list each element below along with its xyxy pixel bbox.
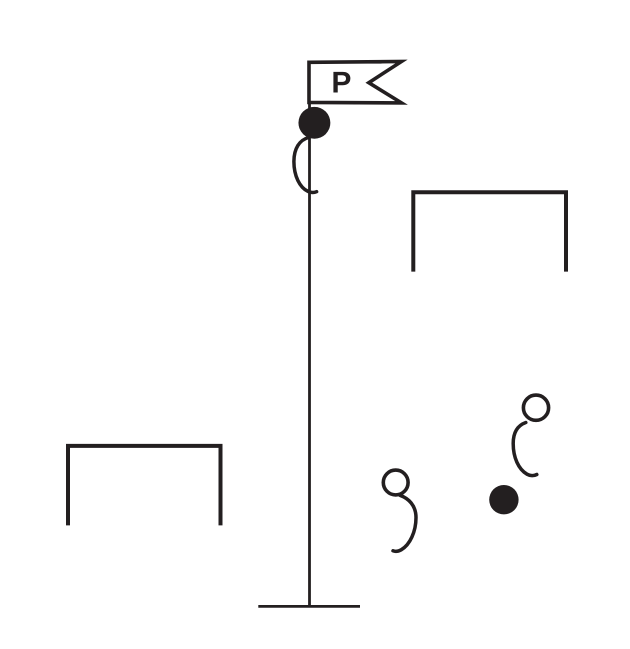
goal bracket lower left (68, 446, 221, 526)
ball on pole (298, 107, 330, 139)
player B head (523, 395, 548, 420)
player A tail (393, 495, 416, 551)
ball lower right (489, 485, 518, 514)
flag pole (308, 62, 311, 606)
player B tail (513, 423, 537, 476)
player tail at pole (294, 138, 317, 193)
flag pennant (309, 62, 402, 103)
flag label P (333, 72, 350, 93)
goal bracket upper right (413, 192, 566, 271)
player A head (383, 470, 408, 495)
pole base (258, 605, 360, 608)
